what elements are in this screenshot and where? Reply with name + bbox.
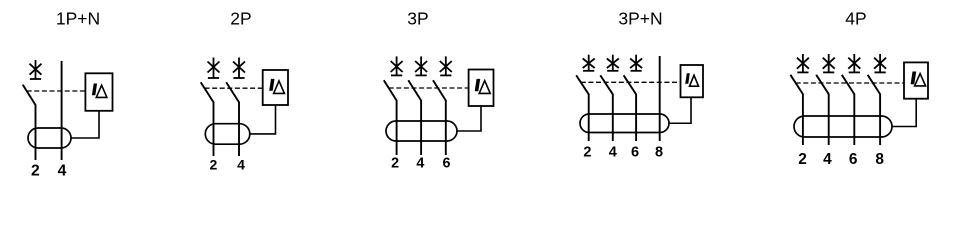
- svg-text:2: 2: [210, 157, 218, 173]
- label I-delta inside relay box (D3): [475, 79, 491, 94]
- label I-delta inside relay box (D5): [911, 72, 926, 86]
- wire pole D2.2 through toroid to terminal: [238, 102, 240, 156]
- svg-text:2: 2: [583, 145, 591, 161]
- wire pole D5.3 through toroid to terminal: [853, 94, 855, 145]
- switch blade pole D4.2: [600, 75, 613, 94]
- wire pole D5.1 through toroid to terminal: [802, 94, 804, 145]
- residual-current relay box (D4): [681, 65, 704, 97]
- switch blade pole D5.1: [790, 75, 803, 94]
- svg-text:4: 4: [58, 163, 67, 180]
- breaker contact symbol pole D5.1: [797, 54, 809, 72]
- neutral wire N (unswitched) D1: [61, 61, 63, 160]
- switch blade pole D5.2: [816, 75, 829, 94]
- switch blade pole D5.4: [868, 75, 881, 94]
- breaker contact symbol pole D4.2: [607, 55, 619, 71]
- dashed trip linkage line to relay (D5): [796, 82, 904, 84]
- breaker contact symbol pole D1.1: [30, 60, 42, 79]
- svg-text:2: 2: [798, 151, 807, 168]
- breaker contact symbol pole D4.3: [630, 55, 642, 71]
- dashed trip linkage line to relay (D4): [581, 81, 681, 83]
- svg-text:6: 6: [443, 156, 451, 172]
- wire pole D3.2 through toroid to terminal: [420, 100, 422, 155]
- breaker contact symbol pole D4.1: [583, 55, 595, 71]
- svg-text:4: 4: [823, 151, 832, 168]
- wire pole D5.2 through toroid to terminal: [828, 94, 830, 145]
- label I-delta inside relay box (D4): [685, 73, 698, 86]
- wire from relay box to toroid (D5): [892, 99, 916, 127]
- svg-text:2: 2: [391, 156, 399, 172]
- toroidal current transformer (D4): [580, 114, 669, 133]
- wire pole D4.2 through toroid to terminal: [612, 94, 614, 141]
- svg-text:2P: 2P: [230, 9, 251, 29]
- wire from relay box to toroid (D1): [71, 111, 99, 138]
- residual-current relay box (D5): [904, 62, 928, 98]
- svg-text:4: 4: [237, 157, 245, 173]
- dashed trip linkage line to relay (D1): [27, 90, 86, 92]
- residual-current relay box (D3): [469, 70, 494, 107]
- neutral wire N (unswitched) D4: [659, 56, 661, 141]
- breaker contact symbol pole D3.1: [391, 56, 403, 75]
- wire pole D5.4 through toroid to terminal: [879, 94, 881, 145]
- svg-text:4P: 4P: [845, 9, 866, 29]
- wire pole D4.3 through toroid to terminal: [635, 94, 637, 141]
- breaker contact symbol pole D2.1: [208, 58, 220, 79]
- svg-text:2: 2: [31, 163, 40, 180]
- breaker contact symbol pole D2.2: [233, 58, 245, 79]
- switch blade pole D3.1: [384, 80, 397, 100]
- svg-text:6: 6: [849, 151, 858, 168]
- wire pole D2.1 through toroid to terminal: [213, 102, 215, 156]
- svg-text:8: 8: [655, 145, 663, 161]
- toroidal current transformer (D2): [205, 124, 250, 145]
- dashed trip linkage line to relay (D3): [389, 87, 469, 89]
- breaker contact symbol pole D5.4: [874, 54, 886, 72]
- toroidal current transformer (D3): [386, 121, 457, 141]
- label I-delta inside relay box (D2): [269, 79, 284, 94]
- toroidal current transformer (D5): [794, 116, 892, 137]
- switch blade pole D2.1: [201, 82, 214, 102]
- wire pole D3.1 through toroid to terminal: [396, 100, 398, 155]
- wire pole D4.1 through toroid to terminal: [588, 94, 590, 141]
- switch blade pole D5.3: [842, 75, 855, 94]
- svg-text:1P+N: 1P+N: [56, 9, 100, 29]
- toroidal current transformer (D1): [28, 128, 71, 148]
- wire from relay box to toroid (D3): [457, 106, 481, 131]
- breaker contact symbol pole D5.3: [848, 54, 860, 72]
- svg-text:3P+N: 3P+N: [618, 9, 662, 29]
- dashed trip linkage line to relay (D2): [205, 87, 263, 89]
- wire pole D1.1 through toroid to terminal: [35, 105, 37, 161]
- breaker contact symbol pole D3.3: [440, 56, 452, 75]
- svg-text:4: 4: [416, 156, 424, 172]
- switch blade pole D4.3: [624, 75, 637, 94]
- svg-text:8: 8: [875, 151, 884, 168]
- breaker contact symbol pole D3.2: [415, 56, 427, 75]
- breaker contact symbol pole D5.2: [823, 54, 835, 72]
- wire from relay box to toroid (D2): [250, 105, 276, 134]
- residual-current relay box (D2): [263, 70, 288, 105]
- switch blade pole D1.1: [23, 85, 36, 105]
- svg-text:6: 6: [631, 145, 639, 161]
- switch blade pole D3.2: [408, 80, 421, 100]
- switch blade pole D3.3: [433, 80, 446, 100]
- residual-current relay box (D1): [85, 73, 112, 111]
- wire from relay box to toroid (D4): [669, 97, 691, 123]
- wire pole D3.3 through toroid to terminal: [445, 100, 447, 155]
- switch blade pole D4.1: [576, 75, 589, 94]
- svg-text:3P: 3P: [407, 9, 428, 29]
- switch blade pole D2.2: [226, 82, 239, 102]
- svg-text:4: 4: [609, 145, 617, 161]
- label I-delta inside relay box (D1): [92, 84, 107, 98]
